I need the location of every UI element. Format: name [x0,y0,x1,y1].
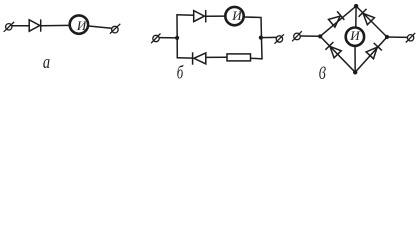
svg-text:И: И [231,8,242,23]
node top (v) [354,4,358,8]
wire bottom rail left [177,57,193,59]
terminal right (v) [406,33,415,43]
wire meter bottom (v) [354,46,356,73]
terminal left (v) [292,31,302,41]
diode bridge lower-left [325,42,341,58]
wire meter top (v) [355,6,357,28]
bridge edge lower-left [320,36,355,72]
node right (v) [385,35,389,39]
node left (b) [175,36,179,40]
diode bottom branch reversed (b) [193,52,206,64]
meter I (v) [346,28,364,46]
wire [12,25,30,27]
diode bridge lower-right [366,43,382,59]
wire [88,26,111,28]
svg-text:И: И [349,28,360,43]
wire [206,56,228,58]
diode bridge upper-right [359,9,375,25]
wire top rail right [244,16,262,19]
diode VD (a) [29,19,41,31]
wire [41,24,70,26]
terminal left (a) [4,22,15,32]
meter I (b) [225,7,243,25]
diode bridge upper-left [328,11,344,27]
svg-text:а: а [43,52,50,73]
meter I (a) [70,15,88,33]
diode top branch (b) [194,10,206,22]
svg-text:И: И [76,18,87,33]
svg-text:ϐ: ϐ [319,63,326,83]
bridge edge lower-right [355,37,387,72]
wire [159,37,177,39]
bridge edge upper-right [356,6,387,37]
wire [206,15,226,17]
terminal right (b) [275,34,284,43]
svg-text:б: б [177,62,184,83]
terminal left (b) [151,34,160,44]
wire left vertical [176,15,178,58]
wire top rail left [176,14,194,17]
node left (v) [318,34,322,38]
wire [387,36,408,38]
resistor R (b) [227,54,251,61]
node right (b) [259,36,263,40]
wire [300,35,320,37]
wire bottom rail right [251,57,263,60]
wire [261,36,276,38]
wire right vertical [261,17,262,59]
terminal right (a) [110,24,120,34]
node bottom (v) [353,70,357,74]
bridge edge upper-left [320,6,356,36]
